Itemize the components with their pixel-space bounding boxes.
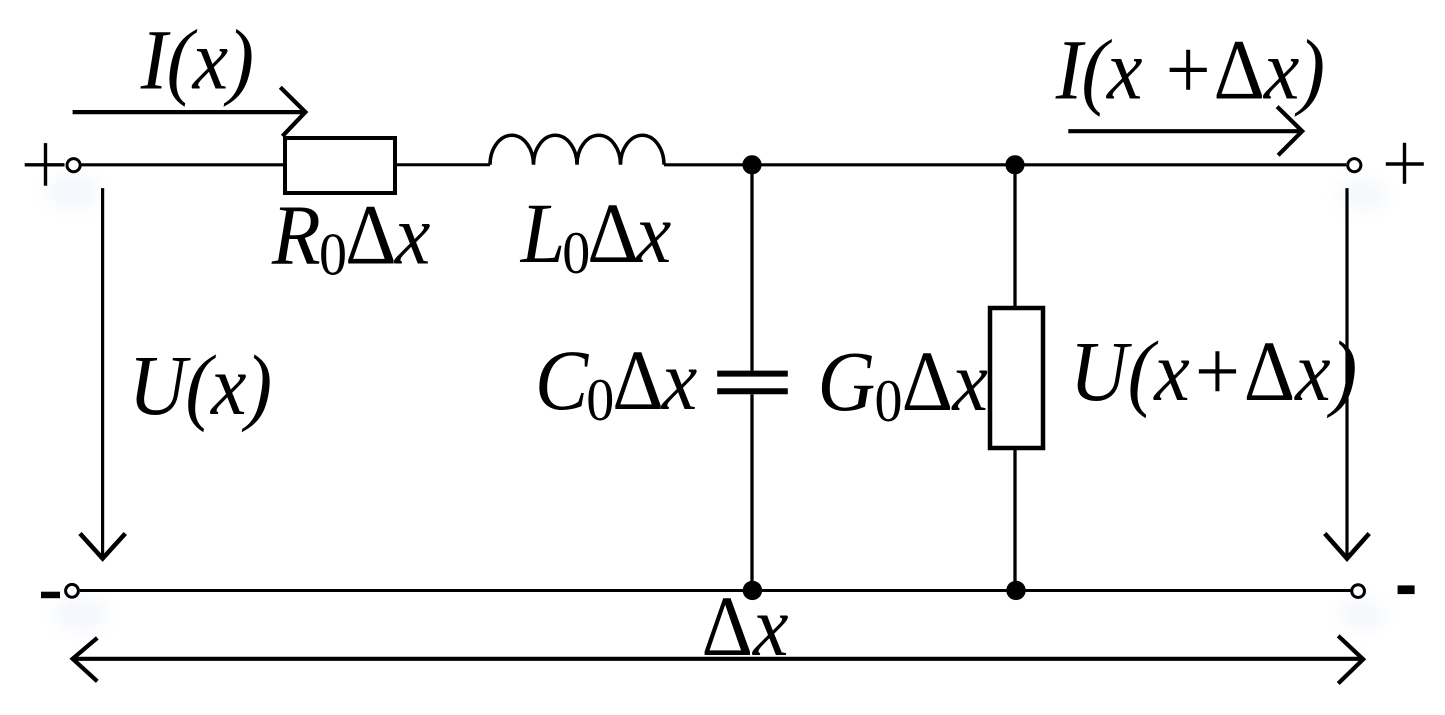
wire G branch upper [1013,165,1016,308]
arrow U(x+&#916;x) downward [1325,188,1369,558]
junction dot bottom node G [1006,581,1025,600]
terminal circle bottom-left [66,584,79,597]
arrow U(x) downward [80,188,125,558]
arrow I(x+&#916;x) [1068,107,1302,156]
minus sign bottom-left [41,592,60,599]
resistor R0&#916;x [285,138,395,193]
terminal circle top-left [67,159,80,172]
inductor L0&#916;x [490,135,664,165]
wire inductor to right terminal (top bus) [664,163,1346,166]
dimension arrow &#916;x (double headed) [73,636,1364,684]
svg-text:U(x): U(x) [129,337,272,432]
terminal circle bottom-right [1352,585,1365,598]
svg-text:U(x+Δx): U(x+Δx) [1070,323,1357,418]
svg-text:C0Δx: C0Δx [535,332,697,433]
minus sign bottom-right [1398,585,1415,594]
svg-text:R0Δx: R0Δx [271,187,431,288]
wire C branch upper [750,165,753,371]
plus sign left (+ polarity, top-left terminal) [25,143,65,186]
svg-text:I(x +Δx): I(x +Δx) [1055,22,1324,117]
capacitor C0&#916;x plates [717,374,788,392]
wire G branch lower [1013,448,1016,591]
conductance resistor G0&#916;x (vertical box) [990,308,1043,448]
junction dot top node G [1005,155,1024,174]
svg-text:I(x): I(x) [140,12,254,107]
wire C branch lower [750,394,753,590]
junction dot bottom node C [743,581,762,600]
svg-text:Δx: Δx [702,578,789,673]
junction dot top node C [742,155,761,174]
wire between resistor and inductor [395,163,490,166]
wire top-left (terminal to resistor) [80,163,285,166]
svg-text:L0Δx: L0Δx [520,185,672,286]
terminal circle top-right [1348,159,1361,172]
svg-text:G0Δx: G0Δx [818,333,988,434]
bottom bus wire [80,589,1351,592]
plus sign right [1386,143,1424,184]
arrow I(x) [73,87,306,136]
